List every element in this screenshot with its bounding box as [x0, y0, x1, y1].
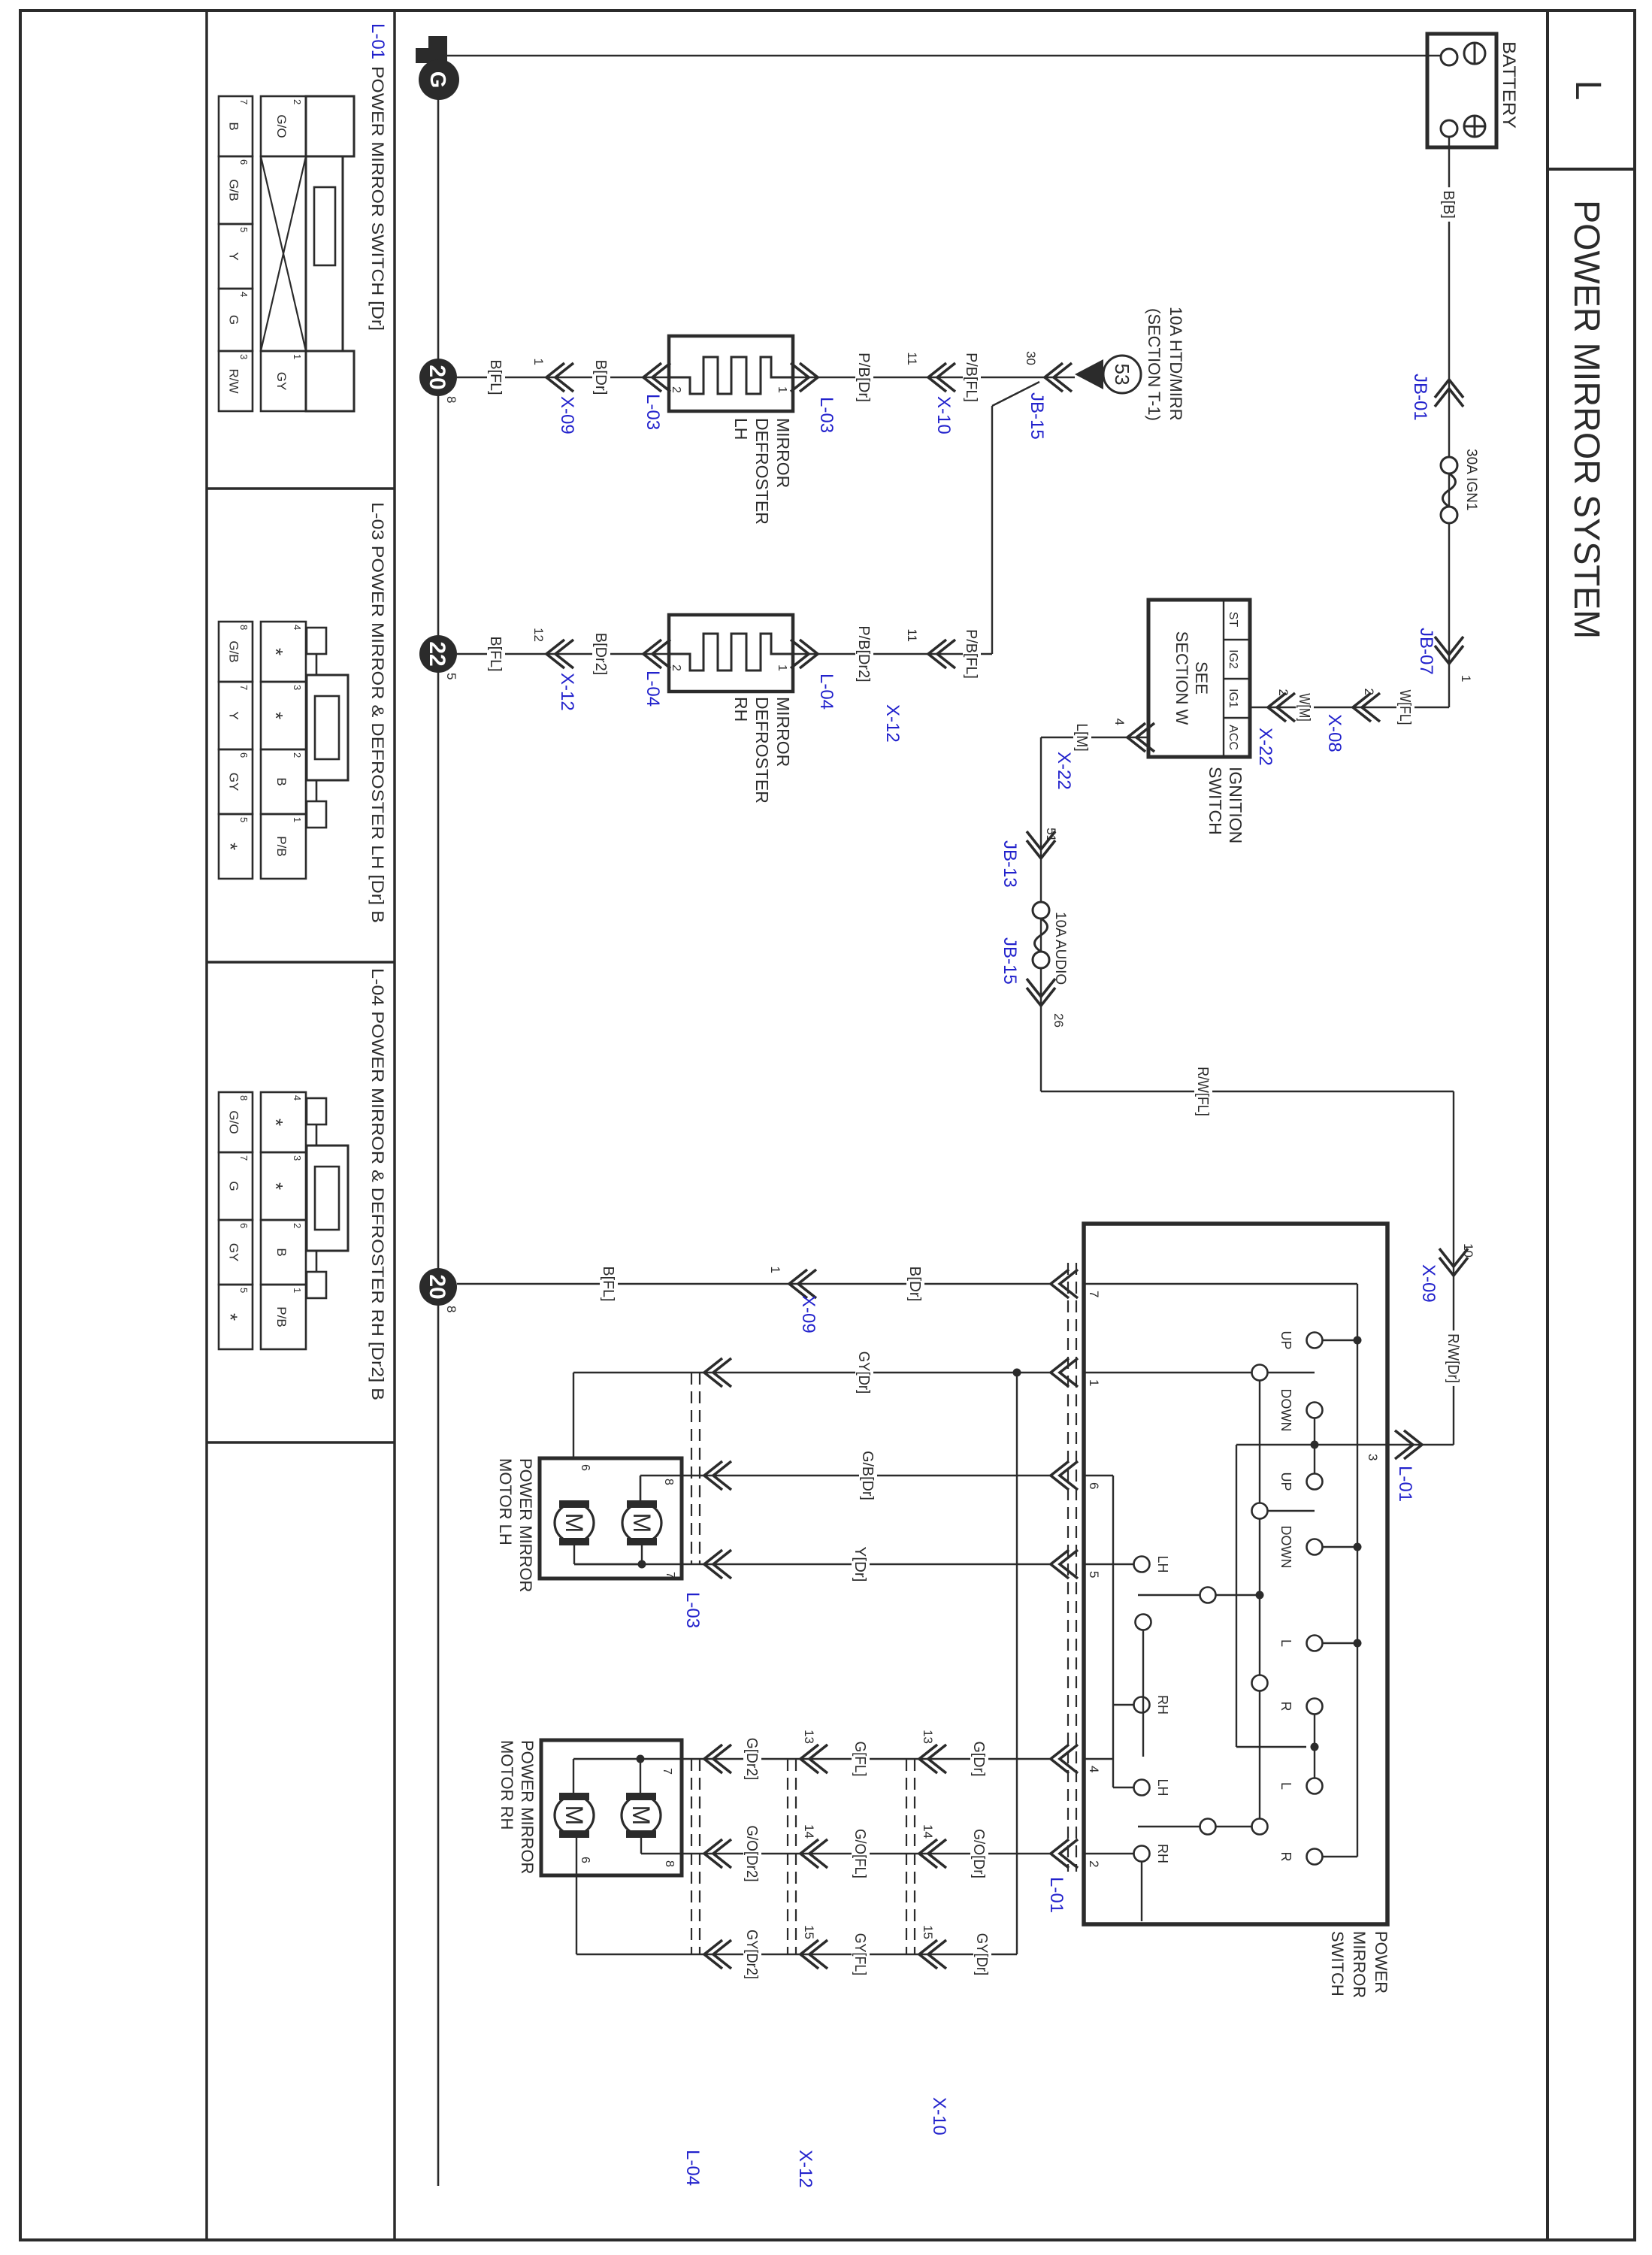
battery minus terminal	[1464, 43, 1485, 64]
svg-text:L: L	[1568, 80, 1608, 101]
wire label B[Dr]	[906, 1264, 924, 1305]
connector cell pin 4 *	[261, 1092, 306, 1152]
svg-text:7: 7	[1087, 1291, 1101, 1297]
svg-text:DEFROSTER: DEFROSTER	[752, 697, 772, 804]
title bar divider	[1546, 11, 1549, 2240]
connector cell pin 5 Y	[219, 224, 253, 289]
svg-text:30: 30	[1024, 351, 1038, 365]
RH1 stub	[1113, 1704, 1133, 1706]
svg-text:G: G	[425, 71, 449, 89]
svg-text:JB-15: JB-15	[1027, 392, 1047, 440]
svg-text:GY[Dr2]: GY[Dr2]	[743, 1930, 760, 1979]
svg-text:*: *	[265, 1182, 287, 1190]
svg-text:LH: LH	[1155, 1555, 1170, 1572]
svg-text:Y[Dr]: Y[Dr]	[852, 1547, 868, 1582]
power mirror switch box	[1084, 1224, 1387, 1924]
svg-text:IG2: IG2	[1227, 649, 1239, 669]
wire feed down to ignition switch	[1250, 707, 1449, 708]
floating contact with arm	[1136, 1615, 1151, 1630]
wire label GY[Dr2]	[743, 1927, 761, 1982]
svg-text:JB-13: JB-13	[1000, 840, 1020, 888]
wire G/O[Dr] switch pin2 to motor RH	[682, 1853, 1051, 1854]
svg-text:5: 5	[238, 1288, 250, 1293]
svg-text:*: *	[265, 1118, 287, 1126]
connector X-22 pin 2	[1268, 693, 1286, 722]
connector cell pin 2 B	[261, 749, 306, 814]
svg-text:GY: GY	[274, 372, 289, 391]
wire label G[FL]	[852, 1739, 870, 1780]
svg-text:X-22: X-22	[1054, 752, 1074, 790]
connector X-09 pin 1	[546, 363, 564, 392]
svg-text:SEE: SEE	[1192, 661, 1211, 695]
svg-text:L-04: L-04	[643, 670, 663, 707]
connector cell pin 4 G	[219, 289, 253, 351]
svg-text:JB-15: JB-15	[1000, 937, 1020, 985]
svg-text:B[Dr2]: B[Dr2]	[592, 633, 609, 675]
connector cell pin 4 *	[261, 622, 306, 682]
svg-text:11: 11	[905, 352, 919, 365]
svg-text:POWER MIRROR: POWER MIRROR	[516, 1458, 535, 1592]
svg-text:7: 7	[661, 1768, 673, 1775]
svg-text:8: 8	[444, 396, 458, 403]
svg-text:10A AUDIO: 10A AUDIO	[1052, 912, 1068, 985]
wire label B[Dr2]	[592, 630, 610, 678]
svg-text:2: 2	[1276, 689, 1290, 696]
wire B[Dr] switch pin7 to ground	[457, 1283, 1051, 1285]
harness bundle dashes X-10 row	[914, 1759, 915, 1954]
svg-text:3: 3	[1366, 1454, 1380, 1460]
svg-text:G/O[Dr2]: G/O[Dr2]	[743, 1825, 760, 1881]
svg-text:G/O[FL]: G/O[FL]	[852, 1829, 868, 1878]
svg-text:R/W[FL]: R/W[FL]	[1194, 1067, 1211, 1116]
fuse 10A AUDIO	[1033, 902, 1049, 919]
svg-text:L: L	[1278, 1639, 1293, 1647]
connector X-10 pin 13	[919, 1745, 937, 1773]
svg-text:G/O[Dr]: G/O[Dr]	[970, 1829, 987, 1878]
harness bundle dashes L-01	[1076, 1263, 1077, 1872]
ground junction 22 (pin 5)	[419, 635, 457, 673]
svg-text:Y: Y	[227, 252, 241, 260]
wire R/W to mirror switch	[1453, 1091, 1454, 1445]
LH RH select contacts	[1134, 1557, 1150, 1572]
svg-text:2: 2	[292, 1223, 303, 1228]
svg-text:LH: LH	[1155, 1778, 1170, 1796]
svg-text:R/W: R/W	[227, 368, 241, 393]
ground point G	[428, 36, 447, 66]
wire defroster LH to fuse 53	[793, 377, 1075, 378]
svg-text:L-04 POWER MIRROR & DEFROSTER: L-04 POWER MIRROR & DEFROSTER RH [Dr2] B	[368, 968, 387, 1400]
ground bus wire	[437, 96, 440, 2186]
junction	[637, 1755, 645, 1763]
svg-text:B[B]: B[B]	[1440, 190, 1457, 219]
svg-text:R: R	[1278, 1852, 1293, 1862]
svg-text:22: 22	[425, 641, 449, 666]
svg-text:M: M	[628, 1806, 655, 1826]
svg-text:G[Dr]: G[Dr]	[970, 1742, 987, 1777]
svg-text:L-04: L-04	[682, 2150, 703, 2186]
svg-text:P/B: P/B	[274, 1306, 289, 1327]
svg-text:51: 51	[1044, 828, 1058, 842]
svg-text:L-04: L-04	[816, 673, 837, 710]
svg-text:G/B: G/B	[227, 179, 241, 201]
svg-text:R: R	[1278, 1702, 1293, 1712]
fuse 30A IGN1	[1441, 457, 1457, 474]
svg-text:4: 4	[1087, 1766, 1101, 1772]
svg-text:20: 20	[425, 1274, 449, 1299]
svg-text:MOTOR LH: MOTOR LH	[496, 1458, 515, 1545]
pin4 stub	[1084, 1758, 1113, 1760]
strip divider pinout/empty	[205, 11, 208, 2240]
svg-text:X-08: X-08	[1324, 714, 1345, 752]
pinout strip dividers	[207, 487, 395, 490]
wire battery B[B] feed	[1448, 137, 1450, 707]
wire battery negative to ground point	[445, 55, 1441, 56]
svg-text:*: *	[265, 712, 287, 719]
svg-text:B: B	[227, 122, 241, 130]
svg-text:LH: LH	[731, 418, 751, 440]
svg-text:1: 1	[1459, 675, 1473, 682]
svg-text:DEFROSTER: DEFROSTER	[752, 418, 772, 525]
power mirror motor RH box	[541, 1740, 682, 1875]
selector bar LH/RH pole 2	[1216, 1826, 1251, 1827]
wire G/B[Dr] switch pin6 to motor LH	[640, 1475, 1051, 1476]
contacts DOWN / UP rocker	[1307, 1403, 1323, 1418]
svg-text:P/B[FL]: P/B[FL]	[963, 629, 979, 679]
svg-text:6: 6	[238, 159, 250, 165]
motor LH horizontal	[622, 1503, 661, 1542]
svg-text:X-09: X-09	[798, 1295, 818, 1333]
mirror defroster LH box	[669, 336, 793, 411]
harness bundle dashes X-12 row	[795, 1759, 797, 1954]
svg-text:2: 2	[670, 664, 682, 671]
svg-text:*: *	[265, 648, 287, 655]
svg-text:POWER MIRROR: POWER MIRROR	[518, 1740, 537, 1874]
svg-text:M: M	[628, 1513, 655, 1533]
wire label R/W[Dr]	[1445, 1330, 1463, 1386]
connector L-04	[704, 1745, 722, 1773]
connector cell pin 6 GY	[219, 1220, 253, 1285]
svg-text:X-09: X-09	[557, 396, 577, 434]
wire into switch pin 3	[1387, 1444, 1454, 1445]
wire label G/B[Dr]	[859, 1448, 877, 1503]
connector cell pin 7 G	[219, 1152, 253, 1220]
svg-text:1: 1	[531, 359, 546, 365]
junction	[638, 1560, 646, 1569]
connector X-09 pin 1	[789, 1270, 807, 1298]
svg-text:X-22: X-22	[1255, 728, 1275, 766]
svg-text:MOTOR RH: MOTOR RH	[498, 1740, 516, 1830]
connector cell pin 3 *	[261, 682, 306, 749]
svg-text:SECTION W: SECTION W	[1172, 631, 1191, 725]
connector cell pin 8 G/O	[219, 1092, 253, 1152]
svg-text:15: 15	[802, 1925, 816, 1939]
svg-text:1: 1	[1087, 1379, 1101, 1386]
wiper arm 2	[1268, 1510, 1315, 1512]
svg-text:L-03 POWER MIRROR & DEFROSTER: L-03 POWER MIRROR & DEFROSTER LH [Dr] B	[368, 502, 387, 923]
svg-text:W[FL]: W[FL]	[1396, 690, 1413, 725]
svg-text:3: 3	[292, 1155, 303, 1161]
svg-text:(SECTION T-1): (SECTION T-1)	[1145, 308, 1163, 421]
svg-text:P/B[Dr]: P/B[Dr]	[855, 353, 872, 402]
svg-text:4: 4	[238, 292, 250, 297]
ignition switch box	[1148, 600, 1250, 757]
wire label P/B[FL]	[963, 350, 981, 405]
connector L-03	[800, 363, 818, 392]
svg-text:W[M]: W[M]	[1296, 693, 1312, 722]
svg-text:3: 3	[238, 354, 250, 359]
wire label B[Dr]	[592, 357, 610, 398]
svg-text:ACC: ACC	[1227, 725, 1239, 750]
connector L-01	[1051, 1839, 1069, 1868]
wire G[Dr] switch pin4 to motor RH	[682, 1758, 1051, 1760]
node 53 triangle	[1075, 359, 1103, 389]
svg-text:5: 5	[238, 227, 250, 232]
connector X-22 pin 4	[1127, 723, 1145, 752]
contact R (stem to rail corner)	[1307, 1849, 1323, 1865]
connector L-03	[643, 363, 661, 392]
svg-text:3: 3	[292, 685, 303, 690]
svg-text:GY[Dr]: GY[Dr]	[855, 1351, 872, 1394]
svg-text:6: 6	[579, 1464, 592, 1471]
motor RH vertical	[555, 1796, 594, 1835]
svg-text:1: 1	[776, 664, 788, 671]
L-03 connector housing	[307, 628, 326, 654]
svg-text:GY[FL]: GY[FL]	[852, 1933, 868, 1975]
svg-text:6: 6	[238, 752, 250, 758]
svg-text:G/B: G/B	[227, 640, 241, 662]
svg-text:1: 1	[292, 817, 303, 822]
pin3 common line	[1236, 1444, 1387, 1445]
svg-text:7: 7	[238, 685, 250, 690]
wire ground to mirror defroster LH	[457, 377, 669, 378]
svg-text:8: 8	[663, 1860, 676, 1867]
svg-text:4: 4	[292, 625, 303, 630]
L-04 connector housing	[307, 1098, 326, 1124]
svg-text:Y: Y	[227, 711, 241, 719]
svg-text:4: 4	[292, 1095, 303, 1100]
svg-text:5: 5	[444, 673, 458, 680]
wire label W[FL]	[1396, 687, 1414, 728]
svg-text:POWER MIRROR SYSTEM: POWER MIRROR SYSTEM	[1566, 200, 1606, 639]
ignition switch pin row	[1223, 600, 1224, 757]
svg-text:6: 6	[1087, 1482, 1101, 1489]
svg-text:2: 2	[292, 752, 303, 758]
connector L-04	[643, 640, 661, 668]
svg-text:G/O: G/O	[274, 114, 289, 138]
connector JB-13 pin 51	[1027, 840, 1055, 858]
svg-text:13: 13	[921, 1730, 935, 1744]
svg-text:L-03: L-03	[816, 397, 837, 433]
connector cell pin 1 P/B	[261, 1285, 306, 1349]
strip divider main/pinout	[393, 11, 396, 2240]
svg-text:53: 53	[1111, 364, 1133, 386]
svg-text:7: 7	[664, 1572, 676, 1578]
connector cell pin 7 Y	[219, 682, 253, 749]
connector L-03	[704, 1358, 722, 1387]
svg-text:B: B	[274, 777, 289, 785]
svg-text:L[M]: L[M]	[1073, 723, 1090, 752]
wire label G[Dr]	[970, 1739, 988, 1780]
wire GY branch to motor RH	[1016, 1373, 1018, 1954]
svg-text:2: 2	[1362, 689, 1376, 695]
svg-text:8: 8	[238, 625, 250, 630]
ground junction 20 (pin 8)	[419, 1268, 457, 1306]
connector L-03	[704, 1550, 722, 1578]
wire ACC to audio fuse run	[1041, 737, 1148, 738]
wire label G[Dr2]	[743, 1735, 761, 1783]
motor RH internal leads	[573, 1758, 682, 1760]
svg-text:1: 1	[292, 1288, 303, 1293]
connector X-10 pin 14	[919, 1839, 937, 1868]
motor LH vertical	[555, 1503, 594, 1542]
pin2 wire	[1084, 1853, 1133, 1854]
svg-text:8: 8	[662, 1479, 675, 1485]
connector X-08 pin 2	[1353, 693, 1371, 722]
svg-text:RH: RH	[731, 697, 751, 722]
svg-text:B[FL]: B[FL]	[487, 360, 504, 395]
svg-text:B[FL]: B[FL]	[600, 1267, 616, 1302]
defroster RH heater element	[669, 634, 793, 670]
connector L-03	[704, 1461, 722, 1490]
svg-text:1: 1	[768, 1267, 782, 1273]
svg-text:X-12: X-12	[795, 2150, 815, 2188]
svg-text:*: *	[219, 843, 242, 850]
wire label B[FL]	[600, 1264, 618, 1305]
svg-text:8: 8	[238, 1095, 250, 1100]
harness bundle dashes L-04 row	[699, 1759, 700, 1954]
connector L-04	[800, 640, 818, 668]
wiper common bar	[1259, 1381, 1260, 1503]
wire label B[FL]	[487, 357, 505, 398]
connector cell pin 6 G/B	[219, 156, 253, 224]
wire R/W[FL] up	[1041, 1091, 1454, 1092]
connector cell pin 3 R/W	[219, 351, 253, 411]
svg-text:SWITCH: SWITCH	[1206, 767, 1225, 835]
wire label P/B[FL]	[963, 626, 981, 682]
junction	[1311, 1441, 1319, 1449]
svg-text:1: 1	[776, 386, 788, 393]
svg-text:UP: UP	[1278, 1330, 1293, 1349]
svg-text:X-09: X-09	[1418, 1264, 1439, 1303]
svg-text:RH: RH	[1155, 1844, 1170, 1863]
L-01 key cell with X	[261, 156, 306, 351]
wire label GY[Dr]	[855, 1348, 873, 1397]
svg-text:GY: GY	[227, 1243, 241, 1262]
wire label G/O[Dr]	[970, 1826, 988, 1881]
contact UP (LH vertical)	[1307, 1333, 1323, 1348]
wire label B[FL]	[487, 634, 505, 675]
svg-text:B: B	[274, 1248, 289, 1256]
selector bar LH/RH pole 1	[1216, 1594, 1256, 1596]
junction	[1354, 1639, 1362, 1648]
svg-text:G/B[Dr]: G/B[Dr]	[859, 1451, 876, 1500]
wire label G/O[FL]	[852, 1826, 870, 1881]
connector X-12 pin 15	[800, 1940, 818, 1969]
connector cell pin 6 GY	[219, 749, 253, 814]
L-01 connector housing	[306, 96, 354, 156]
svg-text:BATTERY: BATTERY	[1499, 41, 1519, 129]
connector cell pin 2 G/O	[261, 96, 306, 156]
svg-text:5: 5	[1087, 1571, 1101, 1578]
connector X-10 pin 11	[928, 363, 946, 392]
svg-text:DOWN: DOWN	[1278, 1389, 1293, 1432]
wire horizontal run to JB-15	[1040, 737, 1042, 1091]
motor LH internal leads	[640, 1476, 641, 1503]
svg-text:20: 20	[425, 365, 449, 389]
svg-text:G: G	[227, 315, 241, 325]
pin1 wiper arm	[1084, 1372, 1251, 1373]
wire label L[M]	[1073, 720, 1091, 755]
connector X-09 pin 10	[1439, 1258, 1468, 1276]
svg-text:L-01: L-01	[1046, 1877, 1067, 1913]
wire label B[B]	[1440, 187, 1458, 222]
switch internal: pin7 riser and supply rail	[1084, 1283, 1357, 1285]
svg-text:26: 26	[1051, 1013, 1066, 1028]
svg-text:4: 4	[1112, 719, 1127, 725]
connector L-04	[704, 1839, 722, 1868]
battery	[1427, 34, 1496, 147]
svg-text:5: 5	[238, 817, 250, 822]
connector JB-15 pin 26	[1027, 988, 1055, 1006]
svg-text:14: 14	[802, 1824, 816, 1839]
svg-text:L-01: L-01	[368, 23, 388, 59]
svg-text:10: 10	[1461, 1243, 1475, 1258]
connector L-01	[1051, 1358, 1069, 1387]
svg-text:G: G	[227, 1181, 241, 1191]
connector cell pin 1 P/B	[261, 814, 306, 879]
connector cell pin 5 *	[219, 1285, 253, 1349]
junction	[1311, 1743, 1319, 1751]
svg-text:L-03: L-03	[643, 394, 663, 430]
svg-text:ST: ST	[1227, 612, 1239, 628]
connector X-12 pin 11	[928, 640, 946, 668]
contact R to box edge	[1141, 1862, 1142, 1921]
svg-text:SWITCH: SWITCH	[1328, 1931, 1347, 1996]
wire label W[M]	[1296, 690, 1314, 725]
connector L-01	[1051, 1745, 1069, 1773]
svg-text:7: 7	[238, 99, 250, 104]
svg-text:2: 2	[1087, 1860, 1101, 1867]
svg-text:JB-07: JB-07	[1416, 628, 1436, 675]
svg-text:GY[Dr]: GY[Dr]	[973, 1933, 990, 1975]
svg-text:IGNITION: IGNITION	[1226, 767, 1245, 843]
svg-text:P/B[FL]: P/B[FL]	[963, 353, 979, 402]
svg-text:X-12: X-12	[557, 673, 577, 711]
harness bundle dashes L-03	[699, 1373, 700, 1564]
svg-text:L: L	[1278, 1782, 1293, 1790]
svg-text:8: 8	[444, 1306, 458, 1312]
svg-text:7: 7	[238, 1155, 250, 1161]
battery plus terminal	[1464, 116, 1485, 137]
junction GY branch	[1013, 1369, 1021, 1377]
svg-text:11: 11	[905, 628, 919, 642]
junction	[1256, 1591, 1264, 1600]
svg-text:G[FL]: G[FL]	[852, 1742, 868, 1777]
svg-text:G/O: G/O	[227, 1110, 241, 1134]
connector X-12 pin 13	[800, 1745, 818, 1773]
connector cell pin 2 B	[261, 1220, 306, 1285]
svg-text:R/W[Dr]: R/W[Dr]	[1445, 1333, 1461, 1383]
wire link JB-15 to defroster RH branch	[992, 382, 1039, 406]
wire label GY[FL]	[852, 1930, 870, 1978]
svg-text:X-10: X-10	[933, 396, 954, 434]
svg-text:10A HTD/MIRR: 10A HTD/MIRR	[1166, 307, 1185, 421]
svg-text:M: M	[561, 1806, 588, 1826]
pin5 wire	[1084, 1563, 1133, 1565]
defroster LH heater element	[669, 357, 793, 394]
wire Y[Dr] switch pin5 to motor LH	[574, 1563, 1051, 1565]
connector L-01 pin 3	[1404, 1430, 1422, 1459]
